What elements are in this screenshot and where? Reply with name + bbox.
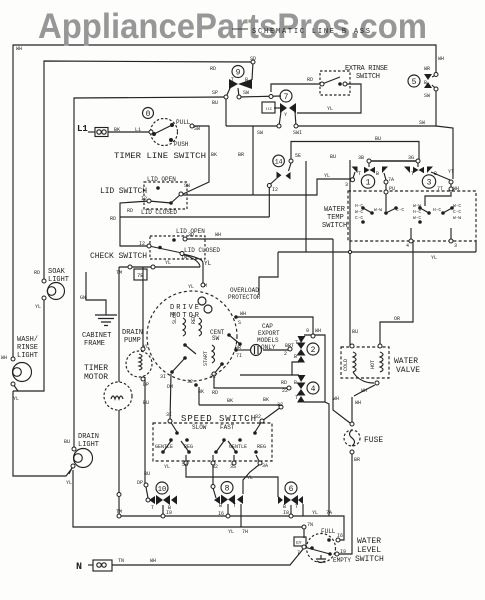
svg-text:YL: YL: [204, 260, 212, 267]
wire RD bus top: [44, 61, 253, 281]
svg-text:SW: SW: [243, 90, 249, 96]
svg-text:RD: RD: [210, 66, 216, 72]
svg-text:C-C: C-C: [453, 209, 461, 215]
wire BU top loop: [291, 142, 419, 161]
svg-text:3I: 3I: [166, 412, 172, 418]
wire check lid-closed to TM row: [182, 254, 200, 267]
wire BK row to 32: [199, 404, 281, 406]
small component annotations: [141, 119, 461, 564]
IIC box: [262, 102, 275, 113]
svg-text:L1: L1: [135, 127, 141, 133]
svg-text:SD: SD: [250, 56, 256, 62]
svg-text:WATER: WATER: [394, 357, 418, 366]
svg-text:CHECK SWITCH: CHECK SWITCH: [90, 252, 147, 261]
svg-text:YL: YL: [228, 529, 234, 535]
drain pump dashed circle: [126, 351, 152, 377]
svg-text:T: T: [411, 171, 414, 177]
wire BU bus left: [74, 97, 226, 449]
svg-text:L1: L1: [77, 124, 88, 134]
svg-text:RD: RD: [281, 380, 287, 386]
wire lid sw I2 left leg: [120, 201, 149, 246]
timer cam numbers text: [158, 69, 432, 495]
svg-text:YT: YT: [448, 169, 454, 175]
wire extra rinse right YL: [297, 84, 361, 113]
svg-text:32: 32: [187, 379, 193, 385]
svg-text:WH: WH: [355, 400, 361, 406]
svg-text:3: 3: [427, 179, 432, 188]
N connector box: [93, 560, 112, 571]
svg-text:GN: GN: [80, 295, 86, 301]
terminals (open circles, all switch/component pins): [11, 60, 453, 556]
svg-text:RD: RD: [212, 390, 218, 396]
wire drain pump top YL: [142, 267, 144, 351]
svg-text:22: 22: [210, 374, 216, 380]
svg-text:I2: I2: [139, 241, 145, 247]
speed switch blades: [170, 421, 177, 432]
svg-text:YL: YL: [324, 173, 330, 179]
diamond 3B: [364, 167, 370, 173]
svg-text:PU: PU: [389, 186, 395, 192]
svg-text:EMPTY: EMPTY: [333, 557, 351, 564]
motor blades: [185, 345, 196, 354]
svg-text:SWI: SWI: [293, 130, 302, 136]
svg-text:SLOW: SLOW: [192, 424, 207, 431]
svg-text:PUSH: PUSH: [174, 141, 189, 148]
svg-text:I0: I0: [166, 510, 172, 516]
svg-text:OVERLOAD: OVERLOAD: [230, 287, 259, 294]
svg-text:BR: BR: [235, 345, 241, 351]
svg-text:LIGHT: LIGHT: [78, 441, 99, 449]
svg-text:S: S: [238, 320, 241, 326]
ground: [95, 315, 117, 326]
svg-text:BR: BR: [238, 152, 244, 158]
svg-text:TN: TN: [118, 558, 124, 564]
svg-text:SW: SW: [424, 93, 430, 99]
svg-text:OR: OR: [394, 316, 400, 322]
diamond c4: [297, 383, 306, 390]
wire I2 of 14 drop: [268, 188, 270, 218]
svg-text:SP: SP: [212, 90, 218, 96]
svg-text:SWITCH: SWITCH: [356, 73, 380, 81]
svg-text:3A: 3A: [262, 463, 268, 469]
diamond c8: [221, 495, 228, 505]
svg-text:7T: 7T: [437, 186, 443, 192]
svg-text:2: 2: [311, 346, 316, 355]
svg-text:WH: WH: [333, 396, 339, 402]
wire drain pump bottom BU/DP: [144, 377, 146, 485]
svg-text:WASH/: WASH/: [17, 336, 38, 344]
svg-text:VALVE: VALVE: [396, 366, 420, 375]
wire drain light blade: [69, 466, 73, 474]
svg-text:GENTLE: GENTLE: [229, 444, 247, 450]
svg-text:RD: RD: [127, 208, 133, 214]
svg-text:B: B: [434, 171, 437, 177]
svg-text:YL: YL: [188, 284, 194, 290]
svg-text:SOAK: SOAK: [48, 268, 66, 276]
wire sd drop to diamond9: [252, 62, 253, 80]
svg-text:YL: YL: [164, 464, 170, 470]
wire extra rinse left RD: [271, 84, 322, 92]
svg-text:WH: WH: [240, 311, 246, 317]
svg-text:BR: BR: [354, 457, 360, 463]
wire c10 bottom drop: [162, 505, 164, 516]
svg-text:BU: BU: [143, 400, 149, 406]
wire line B YL: [73, 470, 304, 527]
svg-text:YL: YL: [13, 396, 19, 402]
svg-text:SW: SW: [212, 335, 220, 342]
svg-text:W-W: W-W: [453, 215, 461, 221]
wire BRT capacitor row: [236, 349, 250, 351]
switch contact dots: [152, 82, 454, 556]
svg-text:GY: GY: [296, 540, 302, 546]
svg-text:7I: 7I: [236, 353, 242, 359]
wire drive motor S WH: [236, 317, 313, 335]
svg-text:BK: BK: [227, 398, 233, 404]
svg-text:9: 9: [306, 328, 309, 334]
svg-text:SW: SW: [419, 120, 425, 126]
GY box: [294, 537, 306, 546]
svg-text:7N: 7N: [307, 522, 313, 528]
svg-text:LID OPEN: LID OPEN: [176, 228, 205, 235]
svg-text:M: M: [204, 283, 207, 289]
svg-text:WH: WH: [438, 56, 444, 62]
wire 7T-WH link: [450, 184, 452, 188]
wire speed sw 3A-left to c8/c6: [186, 463, 278, 497]
wire c14 I2 drop: [271, 179, 277, 185]
wire L1 to timer line switch: [88, 131, 95, 133]
svg-text:YL: YL: [35, 304, 41, 310]
svg-text:RD: RD: [34, 270, 40, 276]
wire check sw WH row: [185, 238, 333, 240]
svg-text:BU: BU: [144, 471, 150, 477]
svg-text:7: 7: [297, 550, 300, 556]
svg-text:DP: DP: [143, 382, 149, 388]
svg-text:llC: llC: [265, 107, 273, 112]
wire c6 right T drop: [302, 504, 304, 516]
triangles switch3: [404, 167, 410, 174]
svg-text:B: B: [294, 354, 297, 360]
wire c10 left leg: [146, 487, 148, 498]
svg-text:GENTLE: GENTLE: [155, 444, 173, 450]
svg-text:5A: 5A: [182, 462, 188, 468]
svg-text:SW: SW: [184, 183, 190, 189]
svg-text:WR: WR: [424, 66, 430, 72]
svg-text:BK: BK: [114, 127, 120, 133]
wire YL to drive motor M: [182, 254, 203, 285]
drive motor coils: [183, 318, 186, 336]
svg-text:7H: 7H: [242, 529, 248, 535]
svg-text:W-C: W-C: [453, 203, 461, 209]
check switch box: [150, 236, 205, 259]
svg-text:7: 7: [284, 93, 289, 102]
svg-text:HOT: HOT: [370, 360, 376, 369]
wire OR valve: [380, 241, 413, 346]
svg-text:B2: B2: [212, 464, 218, 470]
diamond 7: [280, 103, 287, 113]
svg-text:WATER: WATER: [324, 206, 346, 214]
svg-text:T: T: [231, 77, 234, 83]
fuse dashed circle: [344, 430, 360, 446]
svg-text:WH: WH: [215, 232, 221, 238]
diamond c2: [297, 343, 306, 350]
svg-text:W-C: W-C: [413, 215, 421, 221]
svg-text:BU: BU: [212, 100, 218, 106]
svg-text:SWITCH: SWITCH: [322, 222, 347, 230]
svg-text:SW: SW: [257, 130, 263, 136]
wire IIC to triangle: [274, 107, 280, 109]
wire WH top loop: [13, 45, 436, 359]
wire 32 diag into speed switch: [262, 407, 281, 421]
drive motor dashed circle: [147, 291, 237, 381]
svg-text:0: 0: [146, 110, 151, 119]
wire motor 3I to speed switch: [170, 374, 171, 421]
svg-text:6: 6: [289, 485, 294, 494]
svg-text:CAP: CAP: [262, 323, 273, 330]
svg-text:T: T: [151, 505, 154, 511]
wire GN drop: [86, 272, 106, 315]
svg-text:ONLY: ONLY: [261, 344, 276, 351]
svg-text:TM: TM: [116, 270, 122, 276]
soak light: [48, 283, 65, 300]
svg-text:START: START: [203, 351, 209, 366]
svg-text:T: T: [358, 171, 361, 177]
svg-text:LIGHT: LIGHT: [17, 352, 38, 360]
wire switch1 PU drop: [384, 173, 386, 180]
svg-text:PUMP: PUMP: [124, 337, 141, 345]
wash light: [13, 363, 32, 382]
wire c5 drops: [432, 75, 436, 77]
wire YT drop: [436, 126, 453, 179]
svg-text:7A: 7A: [388, 177, 394, 183]
triangles switch1: [352, 167, 358, 174]
valve coils: [353, 352, 356, 372]
svg-text:PULL: PULL: [176, 119, 191, 126]
svg-text:H-C: H-C: [355, 203, 363, 209]
extra rinse box: [320, 71, 350, 95]
svg-text:WH: WH: [453, 186, 459, 192]
svg-text:7A: 7A: [326, 510, 332, 516]
svg-text:B: B: [424, 80, 427, 86]
svg-text:W-W: W-W: [374, 207, 382, 213]
svg-text:B: B: [376, 171, 379, 177]
svg-text:WH: WH: [1, 355, 7, 361]
wire lid sw SW to switch1 terminal 3: [183, 179, 352, 195]
wire WH right drop from switch 5: [296, 89, 436, 126]
wire N row WH: [88, 564, 93, 566]
svg-text:WH: WH: [361, 388, 367, 394]
diamond 9: [229, 79, 238, 89]
svg-text:MODELS: MODELS: [257, 337, 279, 344]
wire BR from y126 down to y195: [252, 126, 254, 195]
wire RD row y217: [120, 216, 269, 218]
diamond c6: [284, 495, 291, 505]
lid switch box: [144, 182, 187, 209]
svg-text:BK: BK: [263, 397, 269, 403]
svg-text:B: B: [219, 503, 222, 509]
wire c6 bottom drop: [290, 505, 292, 516]
wire BU valve riser: [349, 160, 351, 346]
svg-text:LEVEL: LEVEL: [357, 546, 381, 555]
svg-text:WH: WH: [150, 558, 156, 564]
svg-text:LID SWITCH: LID SWITCH: [100, 187, 147, 196]
svg-text:N: N: [76, 562, 82, 573]
wire check sw TM row: [119, 266, 200, 268]
svg-text:LID CLOSED: LID CLOSED: [141, 209, 177, 216]
svg-text:I6: I6: [337, 533, 343, 539]
svg-text:WATER: WATER: [357, 537, 381, 546]
svg-text:1: 1: [366, 179, 371, 188]
svg-text:YL: YL: [247, 475, 253, 481]
svg-text:I9: I9: [340, 549, 346, 555]
svg-text:3I: 3I: [160, 374, 166, 380]
diamond 14: [277, 172, 282, 180]
svg-text:FAST: FAST: [220, 424, 235, 431]
wire switch3 YT blade: [431, 172, 450, 180]
circled numbers: [232, 66, 244, 78]
svg-text:YL: YL: [143, 344, 149, 350]
svg-text:TM: TM: [116, 509, 122, 515]
svg-text:B: B: [245, 77, 248, 83]
svg-text:YL: YL: [431, 255, 437, 261]
wire BU steps from 3B triangle to motor area: [305, 161, 307, 252]
check switch blade: [149, 246, 182, 253]
wire c8 bottom drop: [240, 504, 242, 527]
water temp blades: [363, 208, 372, 213]
svg-text:3S: 3S: [230, 464, 236, 470]
L1 connector box: [95, 128, 108, 137]
wls blade: [304, 547, 330, 554]
svg-text:3G: 3G: [408, 155, 414, 161]
svg-text:I6: I6: [218, 511, 224, 517]
svg-text:BK: BK: [211, 152, 217, 158]
svg-text:22: 22: [282, 388, 288, 394]
svg-text:C-C: C-C: [355, 215, 363, 221]
svg-text:B: B: [294, 380, 297, 386]
svg-text:W-C: W-C: [355, 209, 363, 215]
overload protector loops: [198, 297, 206, 305]
wire BK from timer line switch SW down to lid switch: [183, 126, 209, 194]
wire valve common WH: [353, 372, 374, 383]
wire motor BK down: [198, 387, 200, 405]
svg-text:7B: 7B: [137, 272, 144, 279]
svg-text:C-C: C-C: [396, 207, 404, 213]
svg-text:FUSE: FUSE: [364, 436, 383, 445]
svg-text:H-C: H-C: [413, 209, 421, 215]
svg-text:9: 9: [236, 69, 241, 78]
wire x330 drop to YL row: [325, 402, 329, 516]
svg-text:I2: I2: [141, 196, 147, 202]
svg-text:BRT: BRT: [285, 343, 294, 349]
svg-text:8: 8: [225, 485, 230, 494]
wire YL row A: [119, 516, 344, 540]
svg-text:TM: TM: [181, 255, 187, 261]
wire diamond9 sp blade: [226, 86, 231, 97]
wire YL water temp 3 drop: [475, 241, 477, 252]
svg-text:5E: 5E: [295, 153, 301, 159]
svg-text:YL: YL: [312, 510, 318, 516]
wire vertical BU short at 226: [225, 98, 227, 126]
drain light: [74, 449, 93, 468]
svg-text:FULL: FULL: [321, 528, 336, 535]
svg-text:WH: WH: [315, 328, 321, 334]
wire step between 2 and 4: [292, 362, 299, 375]
diamond 3G: [413, 167, 419, 173]
wire diamond9 sw drop: [238, 88, 239, 97]
svg-text:RD: RD: [307, 77, 313, 83]
diamond c10: [156, 495, 163, 505]
svg-text:SW: SW: [194, 126, 200, 132]
svg-text:4: 4: [311, 385, 316, 394]
svg-text:COLD: COLD: [343, 359, 349, 371]
svg-text:TIMER LINE SWITCH: TIMER LINE SWITCH: [114, 152, 206, 161]
svg-text:I8: I8: [283, 510, 289, 516]
svg-text:W-W: W-W: [413, 203, 421, 209]
svg-text:BU: BU: [64, 439, 70, 445]
svg-text:YL: YL: [327, 106, 333, 112]
wire circle2/4 box: [304, 335, 325, 402]
svg-text:FRAME: FRAME: [84, 340, 105, 348]
svg-text:BU: BU: [330, 154, 336, 160]
svg-text:DM: DM: [167, 384, 173, 390]
timer line switch blade: [154, 125, 172, 134]
svg-text:WH: WH: [16, 46, 22, 52]
wire 5E link: [289, 163, 292, 171]
capacitor: [251, 345, 262, 356]
svg-text:Y: Y: [284, 112, 287, 118]
wls dome: [316, 555, 326, 563]
svg-text:4: 4: [406, 243, 409, 249]
component name labels: [17, 65, 420, 564]
svg-text:EXPORT: EXPORT: [258, 330, 280, 337]
svg-text:2: 2: [284, 351, 287, 357]
wire motor RD 22 to circle4: [214, 374, 288, 388]
svg-text:YL: YL: [165, 260, 171, 266]
wire fuse BR drop: [339, 452, 352, 554]
svg-text:BU: BU: [352, 329, 358, 335]
svg-text:AppliancePartsPros.com: AppliancePartsPros.com: [38, 7, 427, 46]
wire BK into step: [240, 374, 292, 376]
timer cam circle 0: [143, 108, 154, 119]
svg-text:T: T: [295, 504, 298, 510]
svg-text:MOTOR: MOTOR: [84, 373, 108, 382]
svg-text:BU: BU: [375, 136, 381, 142]
svg-text:3: 3: [345, 182, 348, 188]
svg-text:H-C: H-C: [433, 207, 441, 213]
wire soak light YL join: [13, 298, 44, 391]
svg-text:T: T: [295, 340, 298, 346]
svg-text:EXTRA RINSE: EXTRA RINSE: [345, 65, 388, 73]
svg-text:LID OPEN: LID OPEN: [147, 176, 176, 183]
svg-text:3B: 3B: [358, 155, 364, 161]
svg-text:14: 14: [275, 159, 283, 166]
7B box: [134, 269, 147, 280]
timer line switch circle: [151, 119, 178, 146]
svg-text:YL: YL: [66, 480, 72, 486]
speed switch dashed box: [153, 423, 272, 461]
svg-text:PROTECTOR: PROTECTOR: [228, 294, 261, 301]
svg-text:DRAIN: DRAIN: [122, 329, 143, 337]
svg-text:BK: BK: [198, 389, 204, 395]
svg-text:I2: I2: [272, 187, 278, 193]
water valve dashed box: [341, 347, 389, 378]
wire WH down to fuse: [333, 239, 350, 423]
wire 3B-3G bar: [369, 160, 418, 162]
lid switch blade: [149, 201, 171, 203]
wire c7 sw drops: [279, 112, 281, 126]
wire TM vertical timer motor: [118, 267, 120, 382]
svg-text:5: 5: [412, 78, 417, 87]
svg-text:DP: DP: [137, 480, 143, 486]
